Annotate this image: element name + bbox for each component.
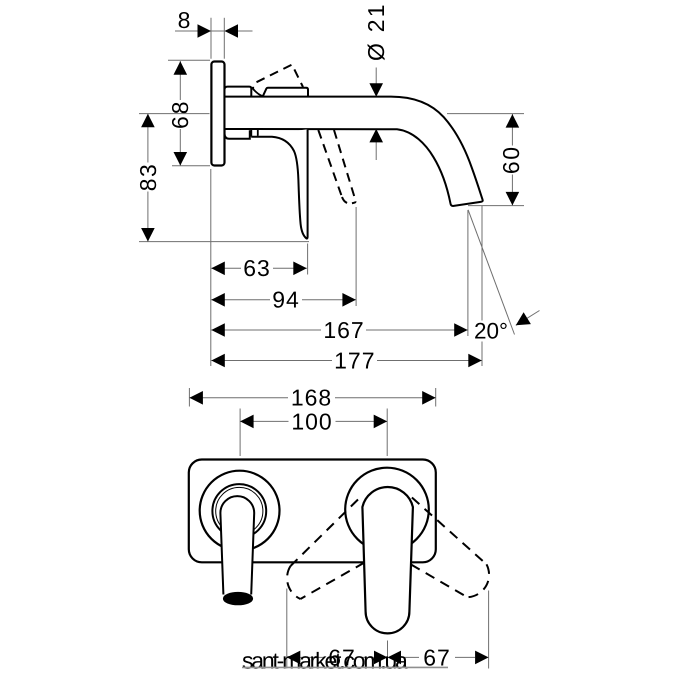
left escutcheon inner ring [216, 487, 263, 534]
20 degree slant line [468, 210, 514, 335]
lower bracket [225, 130, 250, 139]
right escutcheon circle [345, 468, 429, 552]
dashed open handle left [287, 500, 364, 600]
extension line: 8-dim right (x=224.3) [223, 18, 225, 59]
extension tick: plate top (68 top ref) [168, 59, 210, 61]
dimension line 67 left (gapped) [287, 656, 475, 658]
extension line: 8-dim left (x=211) [210, 18, 212, 59]
svg-text:177: 177 [334, 347, 375, 373]
spout (side view) [225, 97, 483, 206]
svg-text:63: 63 [243, 255, 271, 281]
svg-text:168: 168 [291, 385, 332, 411]
mounting plate (front view) [189, 460, 436, 563]
svg-text:8: 8 [178, 7, 192, 33]
dashed swung lever (side) [318, 130, 342, 197]
extension line: 67 left (open handle left) [286, 589, 288, 669]
handle lever (front view) [362, 487, 413, 633]
svg-text:68: 68 [167, 99, 193, 129]
pivot tick [252, 87, 254, 90]
svg-text:20°: 20° [474, 319, 508, 344]
dimension 167 [211, 317, 467, 343]
extension line: open lever tip (94 right ref) [355, 207, 357, 306]
dimension Ø21 [363, 2, 389, 160]
20 degree arrow tail [516, 311, 540, 326]
svg-text:100: 100 [291, 408, 332, 434]
svg-text:94: 94 [272, 287, 300, 313]
cartridge cover (side) [263, 88, 308, 97]
left escutcheon outer circle [200, 471, 280, 551]
extension tick: 168 right [435, 388, 437, 407]
svg-text:83: 83 [135, 163, 161, 192]
svg-text:sant-market.com.ua: sant-market.com.ua [242, 648, 408, 674]
20 degree angle arrow + label [474, 312, 531, 343]
extension line: spout axis left (83 top ref) [139, 113, 210, 115]
lever handle (side, closed) [251, 129, 307, 238]
dimension 168 [189, 385, 435, 411]
extension line: spout axis right (60 top ref) [447, 113, 524, 115]
bracket tab left [250, 130, 252, 137]
extension line: 67 right (open handle right) [488, 591, 490, 669]
extension line: 100 right (handle centre) [386, 409, 388, 457]
svg-text:67: 67 [328, 644, 356, 670]
aerator [223, 592, 252, 604]
wall plate (side view) [211, 62, 224, 166]
extension tick: 168 left [188, 388, 190, 407]
pivot wedge [252, 87, 263, 96]
upper bracket piece [225, 87, 252, 97]
extension line: 100 left (spout centre) [239, 409, 241, 457]
extension line: outlet level (60 bottom ref) [468, 205, 524, 207]
watermark sant-market.com.ua [242, 648, 448, 674]
extension line: outlet centre (167 right ref) [467, 210, 469, 336]
dashed open handle right [411, 498, 489, 598]
dimension 177 [211, 347, 482, 373]
extension line: lever bottom level (83 bottom ref) [139, 241, 309, 243]
svg-text:167: 167 [323, 317, 364, 343]
left escutcheon ring [212, 484, 266, 538]
dimension 68 [167, 61, 193, 166]
dashed raised lever [257, 65, 304, 87]
svg-text:67: 67 [423, 644, 451, 670]
dimension 67 left arrows + text [287, 644, 388, 670]
dimension 60 [498, 114, 524, 205]
spout tube (front view) [220, 496, 254, 594]
dimension 83 [135, 114, 161, 242]
svg-text:Ø 21: Ø 21 [363, 2, 389, 61]
bracket tab right [257, 130, 259, 137]
extension line: wall face down (63/94/167/177 left ref) [210, 169, 212, 366]
dimension 100 [240, 408, 387, 434]
dimension 67 right arrows + text [388, 644, 489, 670]
extension line: lever front (63 right ref) [307, 244, 309, 275]
extension tick: plate bottom (68 bottom ref) [172, 165, 210, 167]
extension line: 67 middle (handle centre) [387, 641, 389, 669]
dimension 63 [211, 255, 306, 281]
dimension 94 [211, 287, 356, 313]
svg-text:60: 60 [498, 146, 524, 175]
extension line: spout outer corner (177 right ref) [481, 206, 483, 366]
dimension 8 [175, 7, 253, 38]
